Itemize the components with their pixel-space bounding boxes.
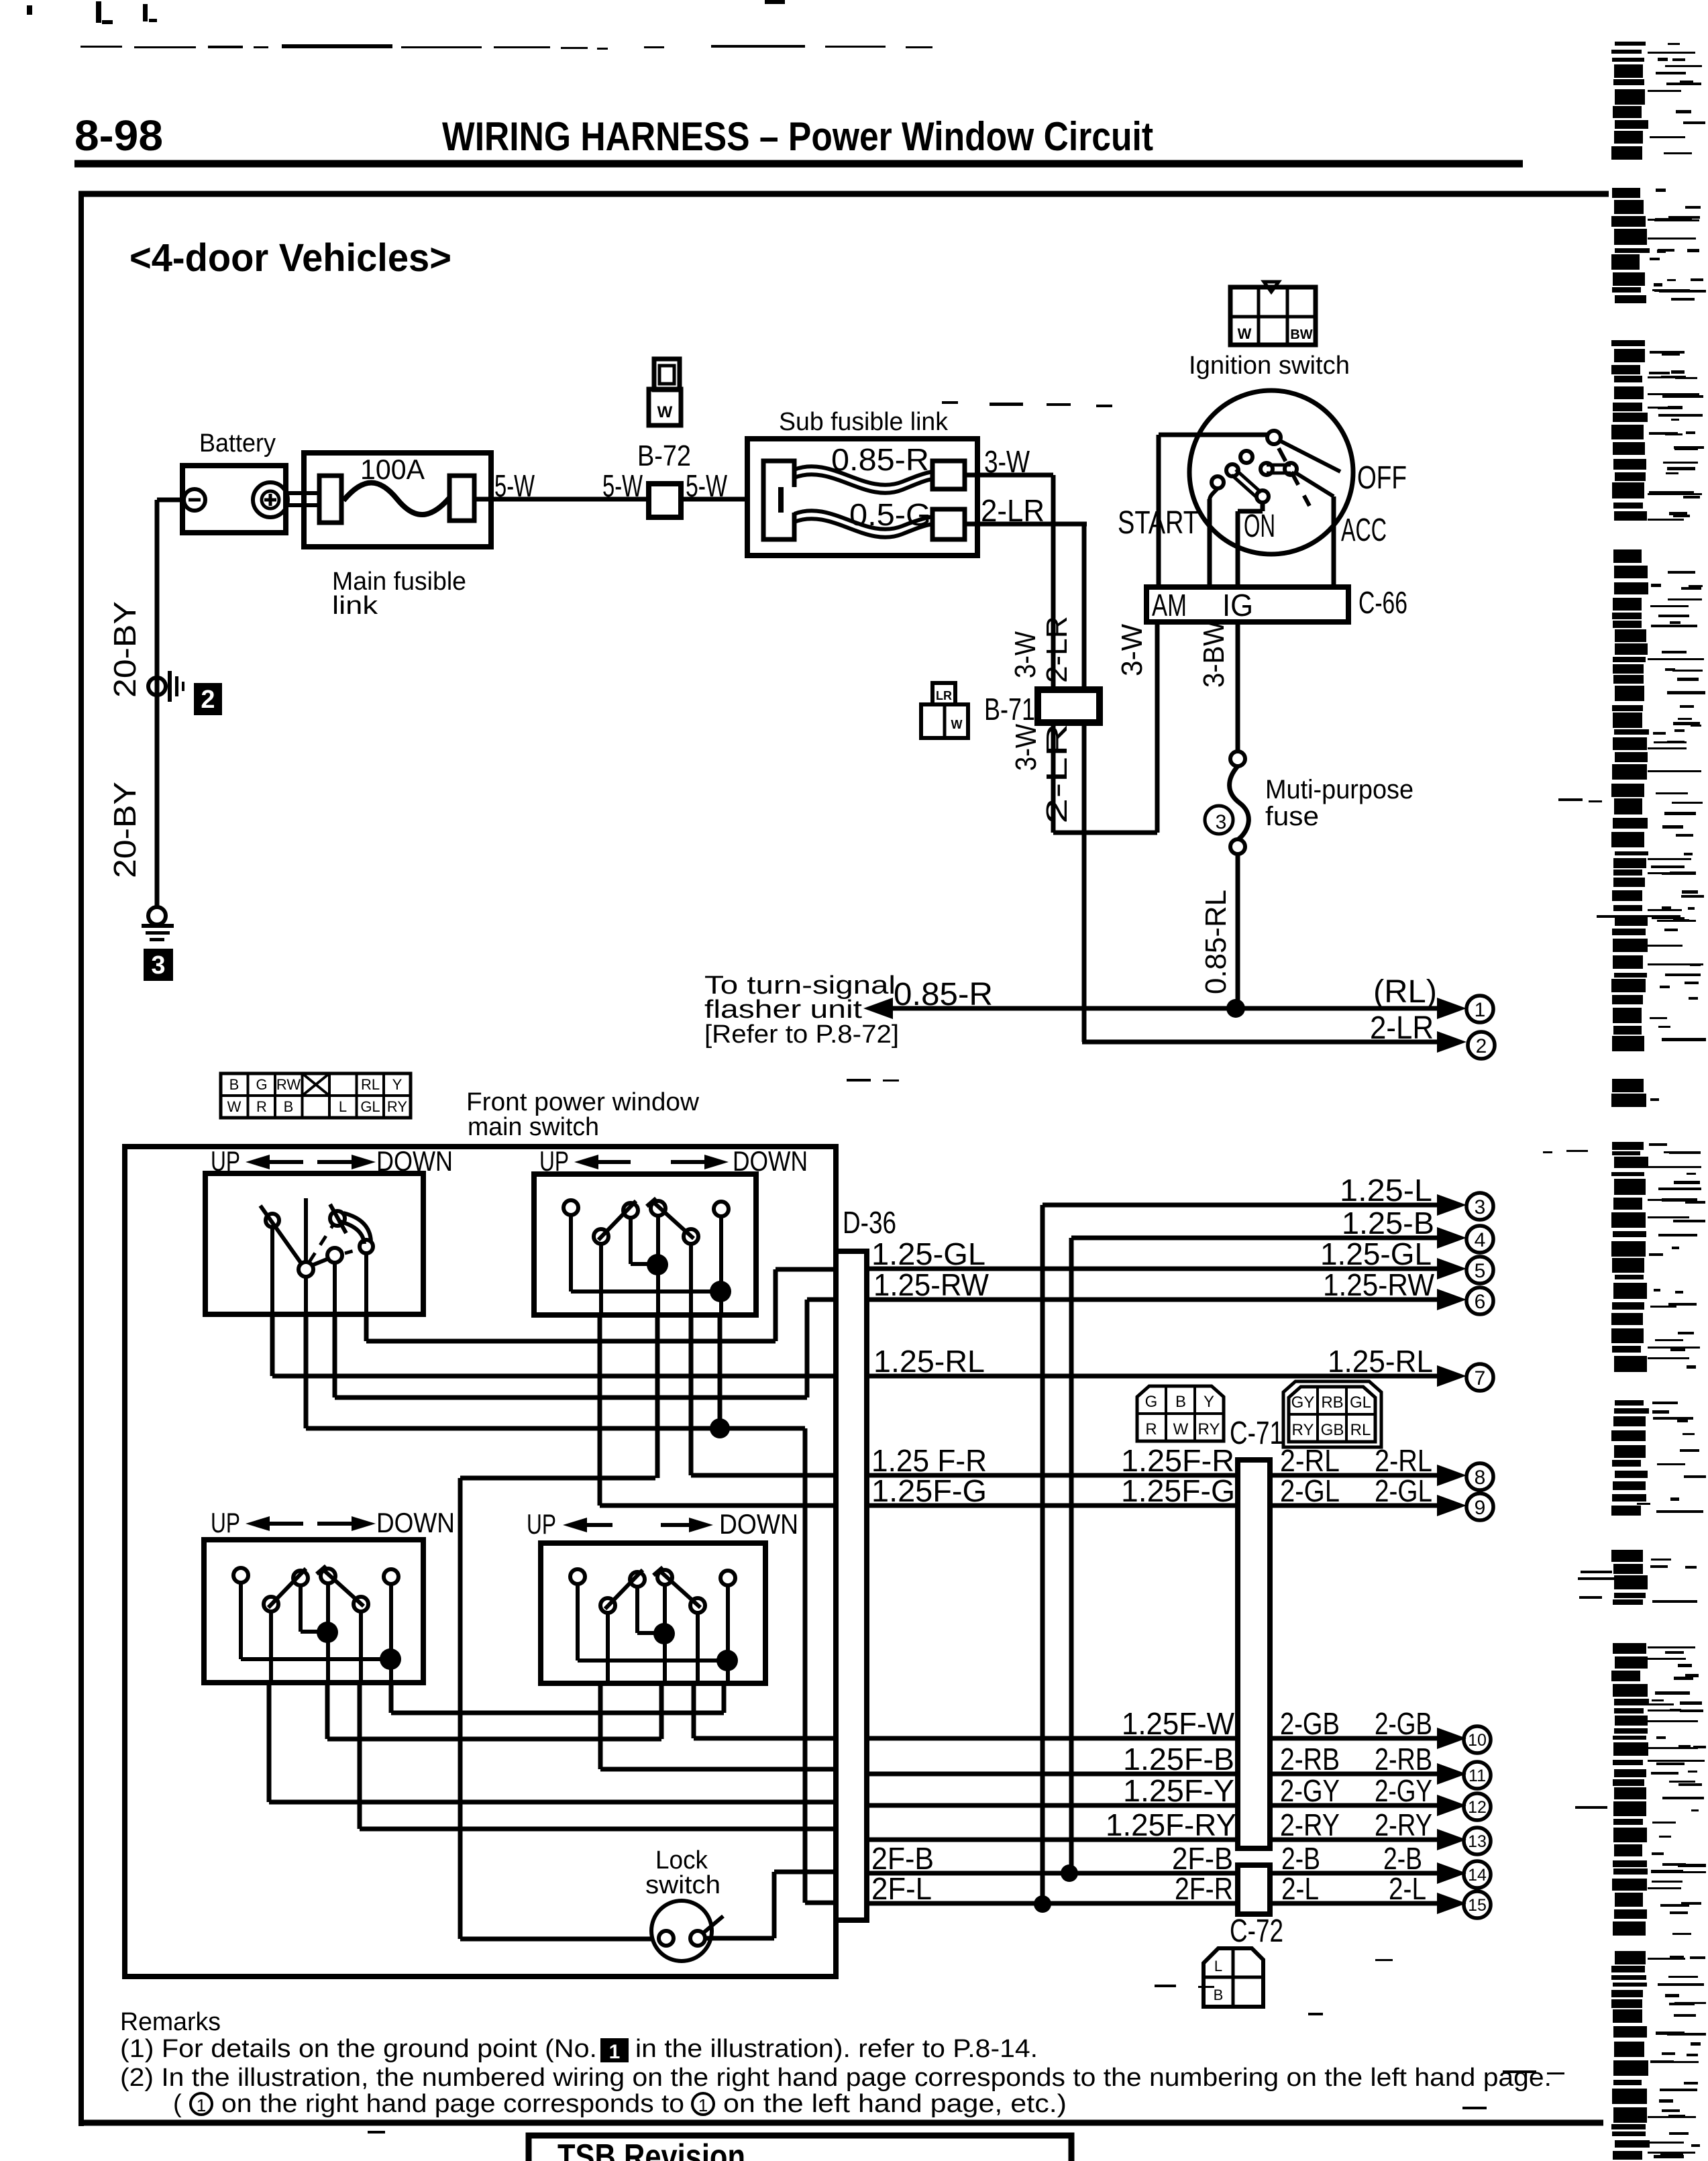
svg-text:1.25F-G: 1.25F-G <box>871 1473 987 1508</box>
switch 1 pin wires <box>270 1227 274 1314</box>
svg-text:(2) In the illustration, the: (2) In the illustration, the numbered wi… <box>120 2064 1552 2092</box>
wire output row 6 <box>867 1298 1442 1302</box>
main switch connector grid <box>221 1073 411 1118</box>
wire 20-BY battery negative <box>157 498 185 503</box>
sub fusible link box <box>747 439 977 556</box>
svg-text:11: 11 <box>1469 1767 1486 1785</box>
main fusible link right terminal <box>449 476 474 521</box>
svg-text:2-GL: 2-GL <box>1375 1473 1432 1508</box>
svg-text:W: W <box>1238 325 1252 342</box>
svg-text:GL: GL <box>1350 1393 1371 1412</box>
wire to turn-signal flasher 0.85-R <box>890 1006 1442 1011</box>
svg-text:on the right hand page corresp: on the right hand page corresponds to <box>221 2090 684 2118</box>
svg-text:C-66: C-66 <box>1358 585 1407 620</box>
svg-text:0.5-G: 0.5-G <box>849 497 931 532</box>
switch 1 contacts <box>266 1214 279 1227</box>
svg-text:RY: RY <box>1292 1421 1314 1439</box>
wire output row 13 <box>867 1838 1442 1842</box>
ignition rotor contacts and bar <box>1261 463 1273 475</box>
arrow row 10 <box>1437 1728 1466 1749</box>
wire 1.25-RW from switch 1 <box>333 1314 337 1398</box>
svg-text:2-LR: 2-LR <box>1040 616 1073 683</box>
svg-text:14: 14 <box>1468 1866 1487 1885</box>
output circle 1 <box>1466 996 1493 1022</box>
svg-text:G: G <box>256 1076 267 1093</box>
wire 1.25-RL from switch 1 <box>270 1314 275 1376</box>
wire 1.25-B vertical <box>1069 1238 1074 1873</box>
OFF position line <box>1280 441 1340 472</box>
arrow row 14 <box>1437 1862 1466 1884</box>
svg-text:3: 3 <box>151 951 165 980</box>
svg-text:GY: GY <box>1291 1393 1315 1412</box>
wire lock switch net from switch 2 <box>655 1315 660 1478</box>
wire output row 15 <box>867 1901 1442 1906</box>
svg-text:R: R <box>256 1098 267 1115</box>
arrow row 9 <box>1437 1495 1466 1516</box>
svg-text:RY: RY <box>387 1098 407 1115</box>
output circle 14 <box>1464 1861 1491 1888</box>
arrow row 13 <box>1437 1829 1466 1850</box>
ground point 2 connector circle <box>148 678 166 695</box>
svg-text:5-W: 5-W <box>602 468 643 503</box>
switch 2 contacts and wiring <box>564 1198 731 1315</box>
svg-text:RY: RY <box>1198 1420 1220 1438</box>
main fusible link left terminal <box>319 476 341 523</box>
svg-text:1.25F-W: 1.25F-W <box>1122 1706 1235 1741</box>
wire battery plus to main fusible link (double) <box>284 491 321 495</box>
svg-text:R: R <box>1145 1420 1157 1438</box>
wire 2-LR down to row 2 corner <box>1082 723 1087 1042</box>
svg-text:RB: RB <box>1321 1393 1343 1412</box>
svg-text:2-GB: 2-GB <box>1280 1706 1340 1741</box>
scan noise right strip <box>1575 42 1706 2160</box>
ignition lower contact ON <box>1257 490 1269 503</box>
output circle 9 <box>1466 1493 1493 1520</box>
wire output row 4 <box>1071 1236 1442 1241</box>
svg-text:W: W <box>657 403 673 421</box>
svg-text:L: L <box>1214 1958 1222 1974</box>
svg-text:B: B <box>1175 1393 1186 1411</box>
connector B-71 <box>1038 690 1100 723</box>
arrow row 6 <box>1437 1289 1466 1310</box>
svg-text:ON: ON <box>1244 509 1275 544</box>
wire 2-LR out of sub fusible link <box>965 522 1087 527</box>
svg-text:5-W: 5-W <box>686 468 727 503</box>
arrow row 1 <box>1437 998 1466 1019</box>
connector B-72 on wire <box>649 484 681 517</box>
svg-text:L: L <box>339 1098 347 1115</box>
connector C-72 pin icon <box>1204 1948 1263 2007</box>
svg-text:<4-door Vehicles>: <4-door Vehicles> <box>129 236 451 280</box>
svg-text:(RL): (RL) <box>1373 974 1437 1010</box>
svg-text:12: 12 <box>1468 1798 1487 1817</box>
wire common net switches 3-4 <box>389 1683 394 1713</box>
svg-text:2-GY: 2-GY <box>1375 1773 1432 1808</box>
ACC position line <box>1295 472 1334 496</box>
wire output row 3 <box>1043 1203 1442 1208</box>
wire 3-W out of sub fusible link <box>965 473 1053 478</box>
sub link wire 0.85-R wave (double) <box>794 466 932 485</box>
svg-text:5: 5 <box>1475 1260 1486 1282</box>
junction dot on 2-L row <box>1034 1895 1051 1913</box>
svg-text:WIRING HARNESS – Power Window: WIRING HARNESS – Power Window Circuit <box>442 114 1153 159</box>
svg-text:2-L: 2-L <box>1389 1871 1426 1906</box>
svg-text:flasher unit: flasher unit <box>704 996 863 1024</box>
battery B1 <box>182 466 286 533</box>
svg-text:2: 2 <box>201 686 215 714</box>
svg-text:1.25F-Y: 1.25F-Y <box>1123 1773 1234 1808</box>
svg-text:6: 6 <box>1475 1291 1486 1313</box>
svg-text:1: 1 <box>197 2095 206 2115</box>
output circle 3 <box>1466 1193 1493 1220</box>
wire 1.25F-RY from switch 3 <box>358 1683 362 1829</box>
output circle 15 <box>1464 1891 1491 1918</box>
svg-text:START: START <box>1118 505 1199 541</box>
svg-text:3-BW: 3-BW <box>1197 621 1230 688</box>
output circle 4 <box>1466 1226 1493 1253</box>
svg-text:4: 4 <box>1475 1229 1486 1251</box>
START wire from contact <box>1210 488 1218 500</box>
svg-text:B: B <box>1214 1987 1224 2003</box>
connector C-71 bus <box>1238 1460 1270 1848</box>
svg-text:OFF: OFF <box>1357 460 1407 496</box>
svg-text:Sub fusible link: Sub fusible link <box>779 408 949 436</box>
arrow to turn-signal flasher <box>863 998 893 1019</box>
main switch outer box <box>125 1147 836 1976</box>
connector B-71 pin icon <box>932 683 955 704</box>
output circle 8 <box>1466 1463 1493 1490</box>
svg-text:RL: RL <box>361 1076 380 1093</box>
svg-text:1.25-RL: 1.25-RL <box>873 1344 985 1379</box>
svg-text:(1) For details on the ground: (1) For details on the ground point (No. <box>120 2035 597 2063</box>
svg-text:IG: IG <box>1222 588 1253 623</box>
svg-text:AM: AM <box>1152 588 1187 623</box>
svg-text:5-W: 5-W <box>494 468 535 503</box>
arrow row 2 <box>1437 1031 1466 1053</box>
svg-text:1.25F-G: 1.25F-G <box>1121 1473 1235 1508</box>
svg-text:DOWN: DOWN <box>376 1507 455 1538</box>
wire output row 10 <box>867 1736 1442 1741</box>
svg-text:2-RB: 2-RB <box>1280 1742 1340 1777</box>
junction dot common net <box>710 1418 730 1438</box>
output circle 5 <box>1466 1257 1493 1283</box>
scan noise top dashed line <box>27 0 932 50</box>
wire 3-W down then right to AM riser <box>1051 723 1056 833</box>
ignition contact START <box>1212 476 1224 488</box>
svg-text:2-L: 2-L <box>1281 1871 1319 1906</box>
svg-text:7: 7 <box>1475 1367 1486 1389</box>
switch 4 box <box>541 1543 765 1683</box>
fuse element wave <box>343 483 449 515</box>
START column wire <box>1157 435 1161 587</box>
svg-text:B-72: B-72 <box>637 439 691 472</box>
wire 1.25-GL from switch 1 <box>364 1314 369 1341</box>
svg-text:LR: LR <box>936 689 952 702</box>
output circle 13 <box>1464 1828 1491 1854</box>
switch 3 box <box>204 1540 423 1683</box>
svg-text:Remarks: Remarks <box>120 2008 221 2036</box>
sub link wire 0.5-G wave (double) <box>794 511 932 529</box>
wire 3-W riser to C-66 AM <box>1155 621 1160 833</box>
svg-text:B-71: B-71 <box>984 692 1035 727</box>
wire output row 12 <box>867 1803 1442 1808</box>
ON column wire <box>1261 502 1265 511</box>
svg-text:[Refer to P.8-72]: [Refer to P.8-72] <box>704 1020 899 1049</box>
svg-text:2-GB: 2-GB <box>1375 1706 1432 1741</box>
TSB Revision box <box>529 2136 1071 2161</box>
multi-purpose fuse symbol <box>1230 751 1245 766</box>
arrow row 4 <box>1437 1227 1466 1249</box>
svg-text:TSB Revision: TSB Revision <box>557 2138 745 2161</box>
output circle 11 <box>1464 1762 1491 1789</box>
svg-text:2: 2 <box>1476 1035 1487 1057</box>
wire output row 8 <box>867 1473 1442 1478</box>
connector B-72 pin icon <box>654 359 680 390</box>
wire 1.25F-W from switch 3 <box>325 1683 330 1739</box>
svg-text:W: W <box>227 1098 242 1115</box>
svg-text:13: 13 <box>1468 1832 1487 1851</box>
svg-text:Front power window: Front power window <box>466 1088 700 1116</box>
svg-text:BW: BW <box>1290 327 1312 342</box>
svg-text:1.25F-B: 1.25F-B <box>1123 1742 1234 1777</box>
switch 1 blade and arm lines <box>260 1206 301 1263</box>
connector C-66 box <box>1146 587 1348 622</box>
fuse number circle 3 <box>1205 806 1233 834</box>
svg-text:1.25-RW: 1.25-RW <box>1323 1267 1435 1302</box>
wire 3-W vertical to B-71 <box>1051 475 1056 690</box>
svg-text:2-LR: 2-LR <box>1370 1010 1434 1046</box>
connector D-36 bus <box>836 1251 867 1920</box>
arrow row 5 <box>1437 1258 1466 1279</box>
ground point 3 connector circle <box>148 907 166 925</box>
svg-text:0.85-R: 0.85-R <box>894 977 993 1012</box>
main border box (top, left, bottom) <box>78 191 1609 197</box>
svg-text:2-RB: 2-RB <box>1375 1742 1432 1777</box>
wire output row 5 <box>867 1267 1442 1271</box>
wire output row 7 <box>867 1374 1442 1379</box>
arrow row 15 <box>1437 1893 1466 1914</box>
switch 4 contacts and wiring <box>570 1567 738 1684</box>
lock switch circle <box>651 1901 712 1961</box>
wire lock switch to 2F-B riser <box>705 1936 774 1941</box>
wire 2-LR vertical to B-71 <box>1082 524 1087 690</box>
svg-text:link: link <box>332 592 378 620</box>
svg-text:2-LR: 2-LR <box>1040 723 1073 824</box>
svg-text:RW: RW <box>276 1076 301 1093</box>
svg-text:G: G <box>1145 1393 1158 1411</box>
svg-text:B: B <box>284 1098 294 1115</box>
wire output row 9 <box>867 1504 1442 1508</box>
svg-text:1.25-RW: 1.25-RW <box>873 1267 990 1302</box>
wire common net step to 2F-L column <box>720 1426 805 1431</box>
svg-text:3-W: 3-W <box>1010 724 1043 771</box>
sub fusible link left connector <box>763 461 794 539</box>
svg-text:3-W: 3-W <box>984 444 1030 479</box>
main fusible link box <box>304 453 491 547</box>
svg-text:0.85-R: 0.85-R <box>831 442 929 477</box>
title underline rule <box>74 160 1523 168</box>
svg-text:1.25-B: 1.25-B <box>1342 1206 1434 1241</box>
svg-text:C-71: C-71 <box>1230 1416 1283 1451</box>
wire 3-BW from IG <box>1236 622 1240 751</box>
ACC column wire <box>1332 496 1336 587</box>
svg-text:C-72: C-72 <box>1230 1913 1283 1949</box>
switch 2 box <box>534 1174 756 1315</box>
svg-text:UP: UP <box>211 1507 240 1538</box>
output circle 6 <box>1466 1287 1493 1314</box>
svg-text:Battery: Battery <box>199 429 276 458</box>
wire 5-W from fusible link to B-72 <box>474 497 649 502</box>
scan specks <box>368 401 1650 2133</box>
output circle 7 <box>1466 1364 1493 1391</box>
svg-text:3-W: 3-W <box>1009 631 1042 678</box>
arrow row 7 <box>1437 1365 1466 1387</box>
arrow row 8 <box>1437 1465 1466 1486</box>
svg-text:RL: RL <box>1350 1421 1371 1439</box>
svg-text:switch: switch <box>645 1871 720 1899</box>
svg-text:fuse: fuse <box>1265 802 1319 831</box>
wire 1.25F-G from switch 2 <box>598 1315 602 1506</box>
connector C-72 bus <box>1238 1865 1270 1914</box>
sub link top right terminal <box>932 461 965 489</box>
svg-text:Y: Y <box>1204 1393 1214 1411</box>
svg-text:2F-R: 2F-R <box>1175 1871 1233 1906</box>
svg-text:3: 3 <box>1475 1196 1486 1218</box>
svg-text:UP: UP <box>527 1508 556 1540</box>
ignition switch connector icon <box>1230 287 1316 345</box>
ground symbol 3 <box>142 924 174 928</box>
output circle 12 <box>1464 1793 1491 1820</box>
switch 3 contacts and wiring <box>233 1566 401 1683</box>
svg-text:15: 15 <box>1468 1896 1487 1915</box>
svg-text:Muti-purpose: Muti-purpose <box>1265 775 1413 804</box>
svg-text:GB: GB <box>1321 1421 1344 1439</box>
dashed line to ACC position <box>1279 448 1310 506</box>
svg-text:Ignition switch: Ignition switch <box>1189 352 1350 380</box>
svg-text:ACC: ACC <box>1341 513 1387 548</box>
output circle 2 <box>1468 1032 1495 1059</box>
svg-text:1.25-GL: 1.25-GL <box>871 1236 985 1271</box>
svg-text:2-GL: 2-GL <box>1280 1473 1340 1508</box>
svg-text:main switch: main switch <box>468 1113 599 1141</box>
junction dot on 2-B row <box>1061 1864 1078 1882</box>
svg-text:W: W <box>1173 1420 1189 1438</box>
ground number box 3 <box>144 949 173 981</box>
connector grid G B Y / R W RY <box>1137 1386 1224 1441</box>
wire 1.25F-W right segment from switch 4 <box>692 1683 696 1738</box>
svg-text:1.25-RL: 1.25-RL <box>1328 1344 1433 1379</box>
ignition rotor diagonal bar <box>1236 470 1261 492</box>
arrow row 11 <box>1437 1763 1466 1785</box>
connector grid GY RB GL / RY GB RL (double border) <box>1289 1387 1375 1442</box>
wire 1.25-L vertical <box>1040 1205 1045 1904</box>
wire 0.85-RL <box>1236 854 1240 1008</box>
svg-text:Y: Y <box>392 1076 403 1093</box>
wire 1.25F-Y from switch 3 <box>267 1683 272 1802</box>
svg-text:in the illustration). refer to: in the illustration). refer to P.8-14. <box>635 2035 1038 2063</box>
ignition contact <box>1240 451 1252 463</box>
svg-text:9: 9 <box>1475 1497 1486 1519</box>
wire 1.25F-R from switch 2 <box>689 1315 694 1475</box>
svg-text:on the left hand page, etc.): on the left hand page, etc.) <box>723 2090 1067 2118</box>
ignition switch body circle <box>1189 390 1353 554</box>
ignition switch top contact <box>1267 431 1281 444</box>
switch 1 box (master) <box>205 1173 423 1314</box>
ground symbol 2 (rotated) <box>168 671 172 702</box>
svg-text:2-RY: 2-RY <box>1280 1807 1340 1842</box>
svg-text:20-BY: 20-BY <box>107 601 142 698</box>
svg-text:2-LR: 2-LR <box>981 493 1045 528</box>
wire 5-W from B-72 to sub fusible link <box>681 497 747 502</box>
wire output row 14 <box>867 1871 1442 1876</box>
wire output row 11 <box>867 1772 1442 1777</box>
ground number box 2 <box>194 683 222 715</box>
svg-text:0.85-RL: 0.85-RL <box>1199 890 1232 994</box>
svg-text:3: 3 <box>1216 811 1227 833</box>
svg-text:DOWN: DOWN <box>719 1508 798 1540</box>
svg-text:(: ( <box>173 2090 182 2118</box>
svg-text:1: 1 <box>698 2095 708 2115</box>
sub link bottom right terminal <box>932 509 965 539</box>
arrow row 3 <box>1437 1194 1466 1216</box>
lock switch contacts <box>659 1931 674 1946</box>
svg-text:2F-L: 2F-L <box>871 1871 932 1906</box>
wire from top contact to START column <box>1159 433 1268 437</box>
wire common net switch 2 pin D to junction <box>718 1315 723 1428</box>
svg-text:Lock: Lock <box>655 1846 708 1875</box>
svg-text:B: B <box>229 1076 239 1093</box>
svg-text:8-98: 8-98 <box>74 111 163 160</box>
svg-text:1.25-L: 1.25-L <box>1340 1173 1432 1208</box>
ignition contact <box>1226 464 1238 476</box>
wire 1.25F-B from switch 4 <box>598 1683 603 1769</box>
svg-text:1.25-GL: 1.25-GL <box>1320 1236 1432 1271</box>
svg-text:D-36: D-36 <box>843 1205 896 1240</box>
svg-text:8: 8 <box>1475 1467 1486 1489</box>
svg-text:1: 1 <box>609 2041 621 2063</box>
svg-text:2-RY: 2-RY <box>1375 1807 1432 1842</box>
wire from switch 1 pivot to junction <box>304 1314 309 1428</box>
wire row 2 2-LR <box>1082 1040 1442 1045</box>
svg-text:1.25F-RY: 1.25F-RY <box>1106 1807 1236 1842</box>
svg-text:10: 10 <box>1468 1731 1487 1750</box>
output circle 10 <box>1464 1726 1491 1753</box>
svg-text:GL: GL <box>360 1098 380 1115</box>
arrow row 12 <box>1437 1795 1466 1816</box>
svg-text:1: 1 <box>1475 999 1486 1021</box>
svg-text:W: W <box>951 718 963 731</box>
svg-text:2-GY: 2-GY <box>1280 1773 1340 1808</box>
junction dot fuse to row1 <box>1226 999 1245 1018</box>
svg-text:3-W: 3-W <box>1116 624 1149 676</box>
svg-text:20-BY: 20-BY <box>107 782 142 878</box>
